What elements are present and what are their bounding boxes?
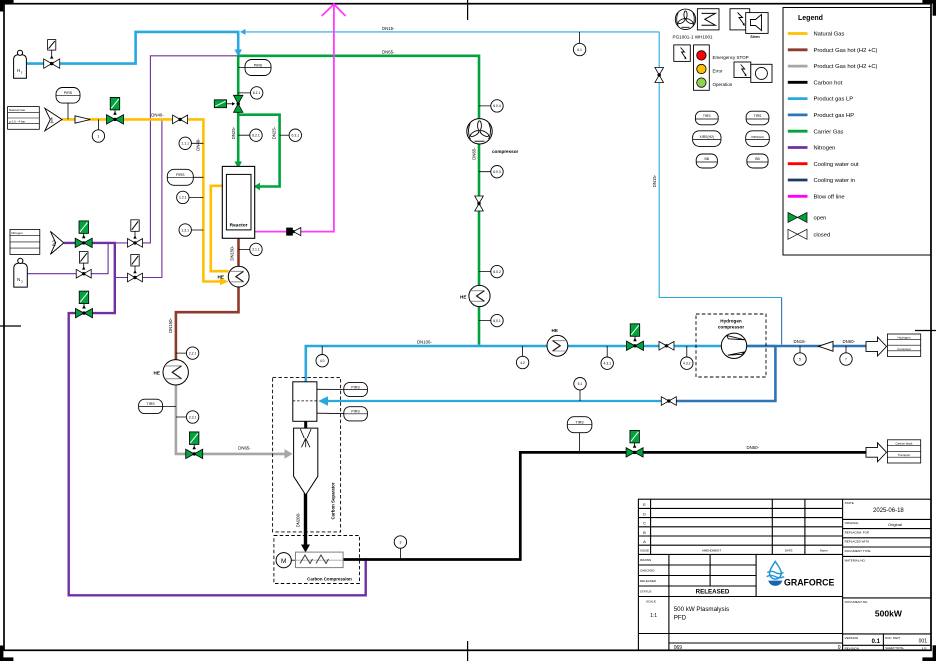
valve nitrogen purge control bbox=[76, 291, 93, 318]
svg-text:DOCUMENT-NO.: DOCUMENT-NO. bbox=[845, 600, 869, 604]
svg-text:DOC. PART: DOC. PART bbox=[885, 636, 900, 640]
source arrow 1 natural gas bbox=[45, 108, 62, 131]
svg-text:2025-06-18: 2025-06-18 bbox=[873, 508, 904, 514]
svg-text:3: 3 bbox=[399, 540, 401, 544]
legend item Product Gas hot (H2 +C) bbox=[788, 64, 878, 70]
svg-text:REVISION: REVISION bbox=[845, 647, 859, 651]
instrument 4.3.2 bbox=[681, 346, 693, 369]
nitrogen source label box bbox=[10, 229, 40, 254]
wire product gas cooled DN65 bbox=[176, 385, 286, 454]
heater WH1001 bbox=[697, 9, 719, 30]
svg-text:6.0.2: 6.0.2 bbox=[493, 270, 501, 274]
wire natural gas DN40 bbox=[62, 119, 220, 281]
instrument 1.1.1 bbox=[179, 137, 203, 149]
svg-text:DOCUMENT TYPE: DOCUMENT TYPE bbox=[845, 549, 871, 553]
instrument 5.1 bbox=[574, 378, 586, 402]
valve product gas LP control bbox=[627, 324, 644, 351]
svg-text:DATE: DATE bbox=[785, 549, 793, 553]
siren power box bbox=[730, 9, 750, 30]
wire product gas LP DN100 main bbox=[305, 345, 776, 348]
reducer product gas HP bbox=[819, 341, 834, 351]
valve gray line control bbox=[186, 432, 203, 459]
svg-text:PIRS: PIRS bbox=[254, 63, 263, 67]
legend item Cooling water out bbox=[788, 162, 859, 168]
svg-text:Product Gas hot (H2 +C): Product Gas hot (H2 +C) bbox=[814, 64, 878, 70]
wire product gas HP to outlet bbox=[746, 345, 867, 348]
instrument TIRS carbon line bbox=[567, 417, 592, 453]
wire carrier gas to reactor top bbox=[237, 56, 240, 163]
wire carrier gas DN65 main bbox=[238, 56, 479, 345]
svg-text:5.1: 5.1 bbox=[578, 382, 583, 386]
svg-text:1.3.1: 1.3.1 bbox=[181, 228, 189, 232]
svg-text:Carbon hot: Carbon hot bbox=[814, 80, 843, 86]
emergency stop power box bbox=[674, 45, 691, 62]
N2 bottle bbox=[14, 258, 27, 287]
svg-text:ISSUE: ISSUE bbox=[640, 549, 649, 553]
heat exchanger HE4 product gas LP bbox=[547, 328, 568, 356]
display BB right bbox=[747, 154, 768, 168]
svg-text:N: N bbox=[17, 277, 20, 282]
wire natural gas HE to reactor bbox=[211, 186, 229, 271]
instrument 1.2.1 bbox=[177, 191, 204, 203]
svg-text:5: 5 bbox=[799, 357, 801, 361]
valve N2 bottle manual bbox=[76, 252, 91, 279]
carbon separator bbox=[273, 377, 341, 532]
legend item Carrier Gas bbox=[788, 129, 844, 135]
instrument 6.1.1 bbox=[238, 87, 263, 99]
wire carbon DN50 line bbox=[343, 452, 867, 559]
svg-text:DN25-: DN25- bbox=[231, 126, 236, 139]
signal tower bbox=[694, 45, 710, 90]
instrument 6.0.3 bbox=[479, 166, 503, 178]
valve natural gas check bbox=[173, 115, 188, 124]
valve H2 bottle isolation bbox=[44, 40, 60, 69]
carbon compression bbox=[274, 536, 360, 584]
svg-text:REPLACED WITH: REPLACED WITH bbox=[845, 540, 870, 544]
svg-text:Original: Original bbox=[888, 522, 902, 527]
svg-text:MATERIAL-NO.: MATERIAL-NO. bbox=[845, 558, 866, 562]
svg-text:Name: Name bbox=[820, 549, 828, 553]
valve blow off relief bbox=[286, 228, 301, 236]
wire carrier gas branch to reactor side bbox=[238, 115, 279, 187]
wire product gas hot HE1 to HE2 bbox=[176, 287, 239, 360]
legend item Cooling water in bbox=[788, 178, 855, 184]
arrow carrier into reactor side bbox=[254, 183, 261, 191]
svg-text:2.2.1: 2.2.1 bbox=[189, 351, 197, 355]
svg-text:Carrier Gas: Carrier Gas bbox=[814, 129, 844, 135]
svg-text:DN100-: DN100- bbox=[417, 340, 432, 345]
instrument PIRS separator bottom bbox=[317, 407, 368, 421]
compressor carrier gas bbox=[467, 119, 519, 154]
wire blow off line bbox=[255, 5, 334, 232]
legend item Product gas HP bbox=[788, 113, 854, 119]
legend item Carbon hot bbox=[788, 80, 843, 86]
svg-text:001: 001 bbox=[919, 638, 928, 644]
svg-text:Blow off line: Blow off line bbox=[814, 194, 845, 200]
heat exchanger HE2 product gas bbox=[154, 360, 189, 385]
wire product gas LP separator riser bbox=[304, 346, 307, 382]
svg-text:6.0.1: 6.0.1 bbox=[493, 319, 501, 323]
tick mark top-center bbox=[467, 0, 469, 20]
wire product gas HP DN15 drop to HP line bbox=[781, 298, 783, 345]
svg-text:p:1.0 - 4 bar: p:1.0 - 4 bar bbox=[9, 120, 25, 124]
corner mark top-left bbox=[0, 0, 14, 12]
svg-text:DN40-: DN40- bbox=[151, 112, 164, 117]
svg-text:RELEASED: RELEASED bbox=[696, 589, 730, 596]
svg-text:1.2.1: 1.2.1 bbox=[179, 196, 187, 200]
svg-text:ORIGINAL: ORIGINAL bbox=[845, 521, 860, 525]
wire product gas LP DN15 top return line bbox=[246, 31, 660, 33]
hydrogen consumer label box bbox=[887, 334, 920, 356]
wire product gas HP recycle drop bbox=[672, 346, 775, 401]
legend closed valve symbol bbox=[788, 229, 830, 239]
legend item Blow off line bbox=[788, 194, 845, 200]
valve carbon line control bbox=[626, 430, 643, 457]
arrow product gas LP down into carrier junction bbox=[234, 50, 242, 57]
svg-text:4.0: 4.0 bbox=[320, 359, 325, 363]
svg-text:6.1.1: 6.1.1 bbox=[253, 91, 261, 95]
svg-text:0.1: 0.1 bbox=[872, 639, 881, 645]
svg-text:SCALE: SCALE bbox=[646, 599, 656, 603]
svg-text:Cooling water out: Cooling water out bbox=[814, 162, 860, 168]
corner mark bottom-left bbox=[0, 646, 13, 661]
svg-text:BB: BB bbox=[705, 157, 710, 161]
instrument 6.1 bbox=[573, 32, 585, 56]
valve DN15 riser check bbox=[655, 68, 664, 83]
legend open valve symbol bbox=[788, 212, 826, 222]
svg-text:2.3.1: 2.3.1 bbox=[189, 415, 197, 419]
svg-text:4.3.2: 4.3.2 bbox=[683, 362, 691, 366]
svg-text:closed: closed bbox=[814, 233, 831, 239]
wire carbon hot cyclone outlet DN200 bbox=[304, 475, 307, 546]
title block texts bbox=[643, 502, 646, 544]
svg-text:Siren: Siren bbox=[750, 35, 760, 39]
svg-text:compressor: compressor bbox=[718, 325, 745, 330]
svg-text:compressor: compressor bbox=[492, 149, 519, 154]
heat exchanger HE1 product gas bbox=[218, 266, 250, 287]
valve carrier gas check bbox=[475, 196, 484, 211]
svg-text:6.3.1: 6.3.1 bbox=[292, 134, 300, 138]
svg-text:DN50-: DN50- bbox=[843, 339, 856, 344]
arrow DN15 left into junction bbox=[240, 29, 246, 35]
valve nitrogen branch B manual bbox=[128, 254, 143, 281]
svg-text:Error: Error bbox=[713, 69, 724, 74]
display TIRS right bbox=[746, 111, 769, 125]
svg-text:DN25-: DN25- bbox=[272, 126, 277, 139]
wire nitrogen purge to natural gas line bbox=[115, 119, 162, 277]
valve nitrogen main control bbox=[75, 221, 92, 248]
svg-text:GRAFORCE: GRAFORCE bbox=[784, 577, 834, 587]
svg-text:HE: HE bbox=[218, 275, 224, 280]
sink arrow carbon transport bbox=[866, 443, 887, 462]
svg-text:Hydrogen: Hydrogen bbox=[720, 319, 742, 324]
instrument 1 bbox=[92, 119, 104, 142]
valve product gas LP check bbox=[659, 342, 674, 351]
title block outer bbox=[638, 499, 931, 650]
legend item Product Gas hot (H2 +C) bbox=[788, 48, 878, 54]
instrument 1.3.1 bbox=[179, 224, 203, 236]
svg-text:AMENDMENT: AMENDMENT bbox=[702, 549, 722, 553]
instrument 5 bbox=[794, 346, 806, 365]
wire product gas LP from H2 bottle bbox=[27, 32, 238, 64]
tick mark bottom-center bbox=[467, 641, 469, 661]
svg-text:6.1: 6.1 bbox=[577, 48, 582, 52]
valve natural gas control bbox=[107, 97, 124, 124]
arrow gray into separator bbox=[285, 449, 293, 459]
svg-text:PFD: PFD bbox=[674, 615, 687, 622]
svg-text:0: 0 bbox=[838, 645, 841, 651]
title block values bbox=[650, 508, 928, 651]
svg-text:TIRS: TIRS bbox=[754, 114, 762, 118]
legend item Natural Gas bbox=[788, 32, 845, 38]
svg-text:REPLACEM. FOR: REPLACEM. FOR bbox=[845, 530, 870, 534]
svg-text:1:1: 1:1 bbox=[650, 613, 657, 619]
svg-text:500kW: 500kW bbox=[875, 609, 903, 619]
svg-text:BB: BB bbox=[755, 157, 760, 161]
svg-text:RELEASED: RELEASED bbox=[640, 579, 657, 583]
svg-text:open: open bbox=[814, 216, 827, 222]
svg-text:E: E bbox=[643, 502, 646, 507]
svg-text:Consumer: Consumer bbox=[897, 347, 911, 351]
hydrogen compressor bbox=[696, 314, 766, 377]
wire product gas LP recycle return bbox=[327, 400, 665, 402]
wire nitrogen from N2 bottle bbox=[27, 244, 108, 274]
tick mark left-center bbox=[0, 325, 21, 327]
carbon transport label box bbox=[887, 440, 920, 463]
svg-text:TIRS: TIRS bbox=[576, 421, 585, 425]
valve recycle line check bbox=[661, 397, 676, 406]
legend box bbox=[783, 8, 931, 256]
svg-text:DN15-: DN15- bbox=[382, 26, 395, 31]
instrument PIRS separator top bbox=[317, 382, 368, 396]
svg-text:PIRS: PIRS bbox=[64, 91, 73, 95]
svg-text:Hydrogen: Hydrogen bbox=[897, 336, 910, 340]
instrument 4.3.1 bbox=[601, 346, 613, 369]
svg-text:7: 7 bbox=[845, 357, 847, 361]
svg-text:Reactor: Reactor bbox=[230, 223, 248, 229]
display XIRS right bbox=[746, 131, 770, 147]
reactor R1 bbox=[222, 166, 254, 238]
svg-text:069: 069 bbox=[674, 645, 683, 651]
svg-text:6.0.3: 6.0.3 bbox=[493, 170, 501, 174]
svg-text:PIRS: PIRS bbox=[351, 385, 360, 389]
instrument PIRS natural gas riser bbox=[167, 169, 203, 185]
instrument 6.0.1 bbox=[479, 314, 503, 326]
svg-text:DN65-: DN65- bbox=[238, 445, 251, 450]
instrument 4.0 bbox=[316, 346, 328, 367]
svg-text:PIRS: PIRS bbox=[351, 410, 360, 414]
svg-text:DN65-: DN65- bbox=[382, 49, 395, 54]
wire product gas hot reactor outlet bbox=[237, 237, 240, 266]
svg-text:Natural Gas: Natural Gas bbox=[9, 108, 26, 112]
svg-text:6.2.1: 6.2.1 bbox=[252, 134, 260, 138]
svg-text:XIRS(H2): XIRS(H2) bbox=[751, 135, 764, 139]
svg-text:1: 1 bbox=[97, 134, 99, 138]
instrument 7 bbox=[840, 346, 852, 365]
svg-text:Product gas LP: Product gas LP bbox=[814, 97, 854, 103]
svg-text:Carbon Separator: Carbon Separator bbox=[330, 482, 335, 519]
instrument PIRS carrier bbox=[238, 60, 271, 76]
corner mark top-right bbox=[922, 0, 936, 16]
arrow natural gas into HE bbox=[220, 278, 229, 286]
horn lamp box bbox=[751, 64, 772, 82]
arrow carbon into compression bbox=[301, 545, 310, 553]
svg-text:4.2: 4.2 bbox=[520, 361, 525, 365]
svg-text:6.0.4: 6.0.4 bbox=[493, 104, 501, 108]
valve nitrogen branch A manual bbox=[128, 220, 143, 247]
svg-text:Product Gas hot (H2 +C): Product Gas hot (H2 +C) bbox=[814, 48, 878, 54]
arrow carrier into reactor top bbox=[234, 162, 242, 169]
svg-text:DN200-: DN200- bbox=[296, 512, 301, 527]
svg-text:Product gas HP: Product gas HP bbox=[814, 113, 855, 119]
svg-text:HE: HE bbox=[460, 295, 466, 300]
sink arrow hydrogen consumer bbox=[866, 337, 887, 356]
fan PG1001-1 bbox=[675, 9, 695, 29]
svg-text:DN150-: DN150- bbox=[168, 318, 173, 333]
svg-text:2.1.1: 2.1.1 bbox=[252, 248, 260, 252]
H2 bottle bbox=[14, 50, 27, 78]
instrument 6.2.1 bbox=[238, 129, 262, 141]
instrument 6.0.4 bbox=[479, 100, 503, 112]
svg-text:Natural Gas: Natural Gas bbox=[814, 32, 845, 38]
svg-text:2: 2 bbox=[52, 241, 56, 248]
legend item Nitrogen bbox=[788, 146, 836, 152]
wire nitrogen purge to carrier junction bbox=[115, 56, 238, 243]
svg-text:D: D bbox=[643, 511, 646, 516]
wire nitrogen main bbox=[64, 243, 366, 595]
svg-text:4.3.1: 4.3.1 bbox=[603, 362, 611, 366]
svg-text:1: 1 bbox=[50, 117, 54, 124]
svg-text:A: A bbox=[643, 539, 646, 544]
natural gas source label box bbox=[8, 107, 40, 130]
display XIRS left bbox=[693, 131, 721, 147]
wire product gas LP DN15 right vertical bbox=[659, 32, 781, 298]
svg-text:Carbon black: Carbon black bbox=[895, 441, 913, 445]
arrow LP recycle into separator bbox=[318, 396, 328, 405]
svg-text:DN15-: DN15- bbox=[794, 339, 807, 344]
svg-text:B: B bbox=[643, 530, 646, 535]
instrument 4.2 bbox=[516, 346, 528, 369]
svg-text:500 kW Plasmalysis: 500 kW Plasmalysis bbox=[674, 606, 729, 613]
valve carrier gas 6.1.1 bbox=[214, 95, 243, 112]
svg-text:Legend: Legend bbox=[798, 15, 823, 22]
svg-text:STATUS: STATUS bbox=[640, 589, 651, 593]
svg-text:PIRS: PIRS bbox=[176, 173, 185, 177]
svg-text:CHECKED: CHECKED bbox=[640, 568, 656, 572]
svg-text:PG1001-1 WH1001: PG1001-1 WH1001 bbox=[673, 35, 714, 40]
svg-text:HE: HE bbox=[552, 328, 558, 333]
svg-text:M: M bbox=[281, 558, 286, 565]
tick mark right-center bbox=[915, 330, 936, 332]
svg-text:DN150-: DN150- bbox=[230, 245, 235, 260]
display BB left bbox=[696, 154, 717, 168]
svg-text:TIRS: TIRS bbox=[703, 114, 711, 118]
blow off arrow head bbox=[322, 4, 346, 16]
heat exchanger HE3 carrier gas bbox=[460, 285, 490, 306]
svg-text:DN15-: DN15- bbox=[652, 174, 657, 187]
svg-text:DN65-: DN65- bbox=[472, 147, 477, 160]
instrument 2.3.1 bbox=[176, 411, 199, 423]
corner mark bottom-right bbox=[922, 645, 936, 661]
svg-text:Nitrogen: Nitrogen bbox=[11, 231, 23, 235]
instrument 2.2.1 bbox=[176, 347, 199, 359]
svg-text:1.1.1: 1.1.1 bbox=[181, 142, 189, 146]
svg-text:Transport: Transport bbox=[898, 453, 910, 457]
svg-text:C: C bbox=[643, 521, 646, 526]
svg-text:DN50-: DN50- bbox=[747, 445, 760, 450]
instrument 6.3.1 bbox=[280, 129, 302, 141]
svg-text:SHEET/TOTAL: SHEET/TOTAL bbox=[885, 646, 904, 650]
svg-text:1/1: 1/1 bbox=[921, 646, 927, 651]
instrument PIRS natural gas inlet bbox=[56, 88, 80, 120]
instrument TIRS gray line bbox=[139, 399, 176, 413]
legend item Product gas LP bbox=[788, 97, 853, 103]
reducer natural gas bbox=[75, 116, 90, 123]
GRAFORCE logo bbox=[767, 562, 835, 588]
siren speaker box bbox=[746, 13, 768, 34]
display TIRS left bbox=[695, 111, 718, 125]
horn power box bbox=[734, 62, 751, 78]
svg-text:Cooling water in: Cooling water in bbox=[814, 178, 856, 184]
svg-text:Nitrogen: Nitrogen bbox=[814, 146, 836, 152]
svg-text:VERSION: VERSION bbox=[845, 636, 859, 640]
svg-text:Carbon Compression: Carbon Compression bbox=[307, 577, 352, 582]
source arrow 2 nitrogen bbox=[50, 231, 63, 254]
svg-text:XIRS(H2): XIRS(H2) bbox=[700, 135, 715, 139]
svg-text:TIRS: TIRS bbox=[147, 402, 156, 406]
instrument 3 bbox=[394, 536, 406, 560]
svg-text:Emergency STOP: Emergency STOP bbox=[713, 55, 749, 60]
svg-text:HE: HE bbox=[154, 371, 160, 376]
svg-text:Operation: Operation bbox=[713, 82, 733, 87]
instrument 2.1.1 bbox=[239, 243, 263, 255]
instrument 6.0.2 bbox=[479, 265, 503, 277]
svg-text:DRAWN: DRAWN bbox=[640, 558, 651, 562]
svg-text:DN40-: DN40- bbox=[195, 138, 200, 151]
svg-text:STATE: STATE bbox=[845, 501, 854, 505]
